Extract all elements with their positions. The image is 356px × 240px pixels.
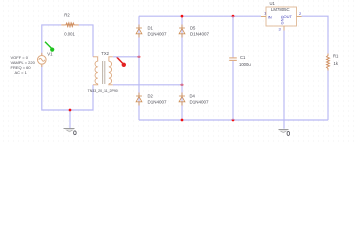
resistor R1 <box>327 54 330 71</box>
node junction at primary bottom <box>69 109 72 112</box>
svg-text:GND: GND <box>280 15 285 24</box>
wire: primary bottom loop <box>42 65 93 110</box>
wire: secondary top to bridge left leg <box>113 56 139 58</box>
svg-text:1000u: 1000u <box>239 62 251 67</box>
svg-text:R2: R2 <box>64 12 70 17</box>
node junction secondary top at bridge left leg <box>138 55 141 58</box>
svg-text:R1: R1 <box>333 53 339 58</box>
wire: R2 right to transformer primary top <box>79 25 93 57</box>
label V1 parameters <box>11 55 36 75</box>
svg-text:D2: D2 <box>148 93 154 98</box>
diode D1 <box>136 25 142 38</box>
svg-text:C1: C1 <box>240 55 246 60</box>
diode D4 <box>179 93 185 106</box>
transformer TX2 <box>93 57 113 85</box>
node junction top bus / C1 leg <box>232 15 235 18</box>
node junction bottom bus / D4 leg <box>181 119 184 122</box>
label 0 (secondary ground) <box>287 132 290 136</box>
voltage source V1 <box>38 53 47 67</box>
voltage regulator U1 LM7805C <box>261 7 302 31</box>
wire: C1 branch <box>232 16 234 120</box>
wire: regulator ground pin down <box>283 31 285 129</box>
svg-text:AC = 1: AC = 1 <box>15 70 28 75</box>
resistor R2 <box>61 23 79 26</box>
wire: ground drop from primary bottom <box>69 110 71 129</box>
svg-text:D4: D4 <box>190 93 196 98</box>
diode D2 <box>136 93 142 106</box>
wire: regulator output to load branch <box>302 16 329 53</box>
wire: top bus to regulator input <box>139 15 261 17</box>
node junction top bus / D5 leg <box>181 15 184 18</box>
wire: bottom bus <box>139 119 328 121</box>
node junction secondary bottom at bridge right leg <box>181 83 184 86</box>
transformer core lines <box>103 61 105 84</box>
svg-text:0.001: 0.001 <box>64 31 75 36</box>
svg-text:LM7805C: LM7805C <box>271 7 290 12</box>
wire: V1 top to R2 left <box>42 25 62 56</box>
svg-text:D1N4007: D1N4007 <box>148 100 168 105</box>
capacitor C1 <box>229 58 237 61</box>
wire: secondary bottom to bridge right leg <box>113 84 182 86</box>
wire: R1 bottom to bus <box>327 71 329 121</box>
svg-text:D1: D1 <box>148 25 154 30</box>
voltage probe marker (green) <box>45 42 54 52</box>
wire: bridge right leg <box>181 16 183 120</box>
svg-text:U1: U1 <box>270 1 276 6</box>
svg-text:V1: V1 <box>47 51 53 56</box>
svg-text:OUT: OUT <box>284 14 293 19</box>
label 0 (primary ground) <box>74 131 77 135</box>
ground 0 (secondary side) <box>279 130 289 133</box>
svg-text:D5: D5 <box>190 25 196 30</box>
ground 0 (primary side) <box>64 129 75 132</box>
diode D5 <box>179 25 185 38</box>
svg-text:IN: IN <box>268 14 272 19</box>
svg-text:TN33_20_11_2P90: TN33_20_11_2P90 <box>88 89 118 93</box>
voltage probe marker (red) <box>117 57 126 67</box>
wire: bridge left leg <box>138 16 140 120</box>
svg-text:D1N4007: D1N4007 <box>190 32 210 37</box>
svg-text:TX2: TX2 <box>101 51 109 56</box>
svg-text:D1N4007: D1N4007 <box>190 100 210 105</box>
node junction bottom bus / C1 leg <box>232 119 235 122</box>
svg-text:D1N4007: D1N4007 <box>148 32 168 37</box>
